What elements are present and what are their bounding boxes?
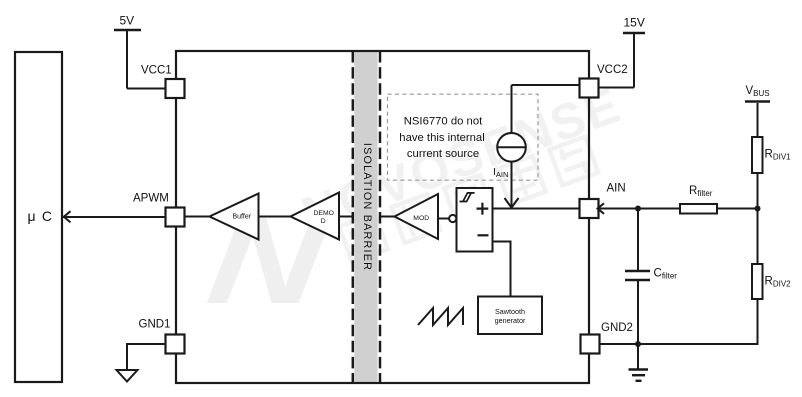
pin square GND2 bbox=[581, 335, 600, 354]
buffer amp bbox=[210, 194, 259, 240]
wire Buffer to DEMOD bbox=[259, 216, 292, 218]
svg-text:NSI6770 do not: NSI6770 do not bbox=[404, 116, 483, 128]
pin square AIN bbox=[580, 199, 599, 218]
svg-text:current source: current source bbox=[407, 148, 479, 160]
svg-text:μ C: μ C bbox=[28, 208, 54, 224]
5V supply bar bbox=[114, 30, 166, 89]
IC block outline bbox=[176, 51, 589, 383]
svg-text:15V: 15V bbox=[624, 16, 645, 30]
svg-text:D: D bbox=[321, 218, 326, 225]
wire APWM to uC with arrow bbox=[63, 211, 166, 222]
node dot divider tap bbox=[755, 206, 761, 212]
node dot GND2/Cfilter bbox=[635, 341, 641, 347]
svg-text:MOD: MOD bbox=[413, 215, 429, 222]
wire DEMOD to barrier bbox=[339, 216, 353, 218]
svg-text:have this internal: have this internal bbox=[399, 132, 484, 144]
wire barrier to MOD bbox=[380, 216, 395, 218]
Rfilter resistor bbox=[680, 204, 717, 214]
microcontroller box bbox=[15, 52, 62, 382]
svg-text:GND1: GND1 bbox=[139, 319, 171, 331]
hysteresis symbol bbox=[460, 193, 475, 202]
wire MOD to bubble bbox=[438, 218, 449, 220]
wire RDIV1 to tap bbox=[757, 173, 759, 264]
inverter bubble bbox=[449, 215, 456, 222]
svg-text:Sawtooth: Sawtooth bbox=[495, 307, 525, 316]
svg-text:generator: generator bbox=[495, 316, 526, 325]
mod amp bbox=[395, 194, 439, 239]
svg-text:Buffer: Buffer bbox=[233, 214, 252, 221]
GND1 wire bbox=[127, 344, 166, 370]
svg-text:AIN: AIN bbox=[607, 182, 626, 194]
AIN external wire with arrow bbox=[598, 203, 758, 214]
svg-text:DEMO: DEMO bbox=[314, 210, 334, 217]
note text bbox=[399, 116, 484, 160]
svg-text:ISOLATION BARRIER: ISOLATION BARRIER bbox=[361, 143, 373, 271]
svg-text:GND2: GND2 bbox=[601, 322, 633, 334]
watermark text NOVOSENSE bbox=[295, 76, 629, 243]
sawtooth generator box bbox=[478, 297, 542, 335]
svg-text:5V: 5V bbox=[120, 14, 135, 28]
isolation barrier band bbox=[354, 51, 377, 383]
sawtooth waveform bbox=[418, 308, 463, 325]
svg-text:VCC1: VCC1 bbox=[141, 65, 172, 77]
wire comparator plus to AIN pin bbox=[493, 208, 581, 210]
pin square VCC2 bbox=[580, 79, 599, 98]
wire comparator minus to sawtooth generator bbox=[493, 242, 511, 298]
RDIV2 resistor bbox=[752, 264, 763, 299]
RDIV1 resistor bbox=[752, 137, 763, 173]
pin square GND1 bbox=[166, 335, 185, 354]
wire APWM to Buffer bbox=[185, 216, 210, 218]
node dot AIN/Cfilter bbox=[635, 206, 641, 212]
current source IAIN bbox=[497, 85, 580, 208]
pin square VCC1 bbox=[166, 79, 185, 98]
comparator U1 bbox=[457, 188, 493, 252]
svg-text:VCC2: VCC2 bbox=[597, 64, 628, 76]
plus input bbox=[477, 203, 489, 215]
GND1 ground symbol bbox=[117, 370, 138, 382]
minus input bbox=[478, 234, 489, 236]
svg-text:APWM: APWM bbox=[133, 193, 169, 205]
Cfilter capacitor bbox=[625, 209, 650, 345]
watermark CJK row bbox=[339, 137, 598, 262]
isolation barrier right dashed line bbox=[379, 51, 382, 383]
wire RDIV2 down to GND2 line bbox=[600, 299, 758, 344]
15V supply bar bbox=[598, 33, 645, 88]
demod amp bbox=[291, 193, 340, 240]
earth ground symbol bbox=[629, 344, 649, 381]
VBUS supply bbox=[745, 102, 770, 138]
pin square APWM bbox=[166, 208, 185, 227]
isolation barrier left dashed line bbox=[352, 51, 355, 383]
note box (dashed) bbox=[388, 94, 539, 180]
